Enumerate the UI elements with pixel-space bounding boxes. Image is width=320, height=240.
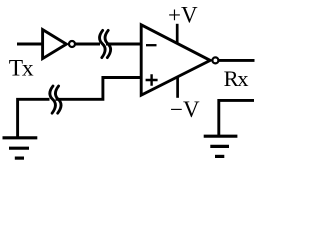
capacitor C2 [50,86,61,113]
svg-text:+V: +V [168,2,198,27]
ground right [204,136,238,156]
wire -V stub [176,77,179,98]
ground left [3,138,38,158]
wire inverter output to C1 [75,43,100,46]
svg-text:Tx: Tx [9,55,34,81]
wire +V stub [176,24,179,44]
inverter U1 [43,30,75,59]
capacitor C1 [100,30,111,57]
wire C1 to op-amp inverting input [106,43,141,46]
svg-text:−V: −V [170,97,200,122]
wire Tx input [17,43,42,46]
op-amp U2 [141,25,218,95]
wire right to ground [219,100,254,135]
wire op-amp output to Rx [219,59,255,62]
wire left ground to C2 [18,99,50,137]
svg-text:Rx: Rx [224,66,249,91]
wire C2 to op-amp non-inverting input [56,78,142,100]
